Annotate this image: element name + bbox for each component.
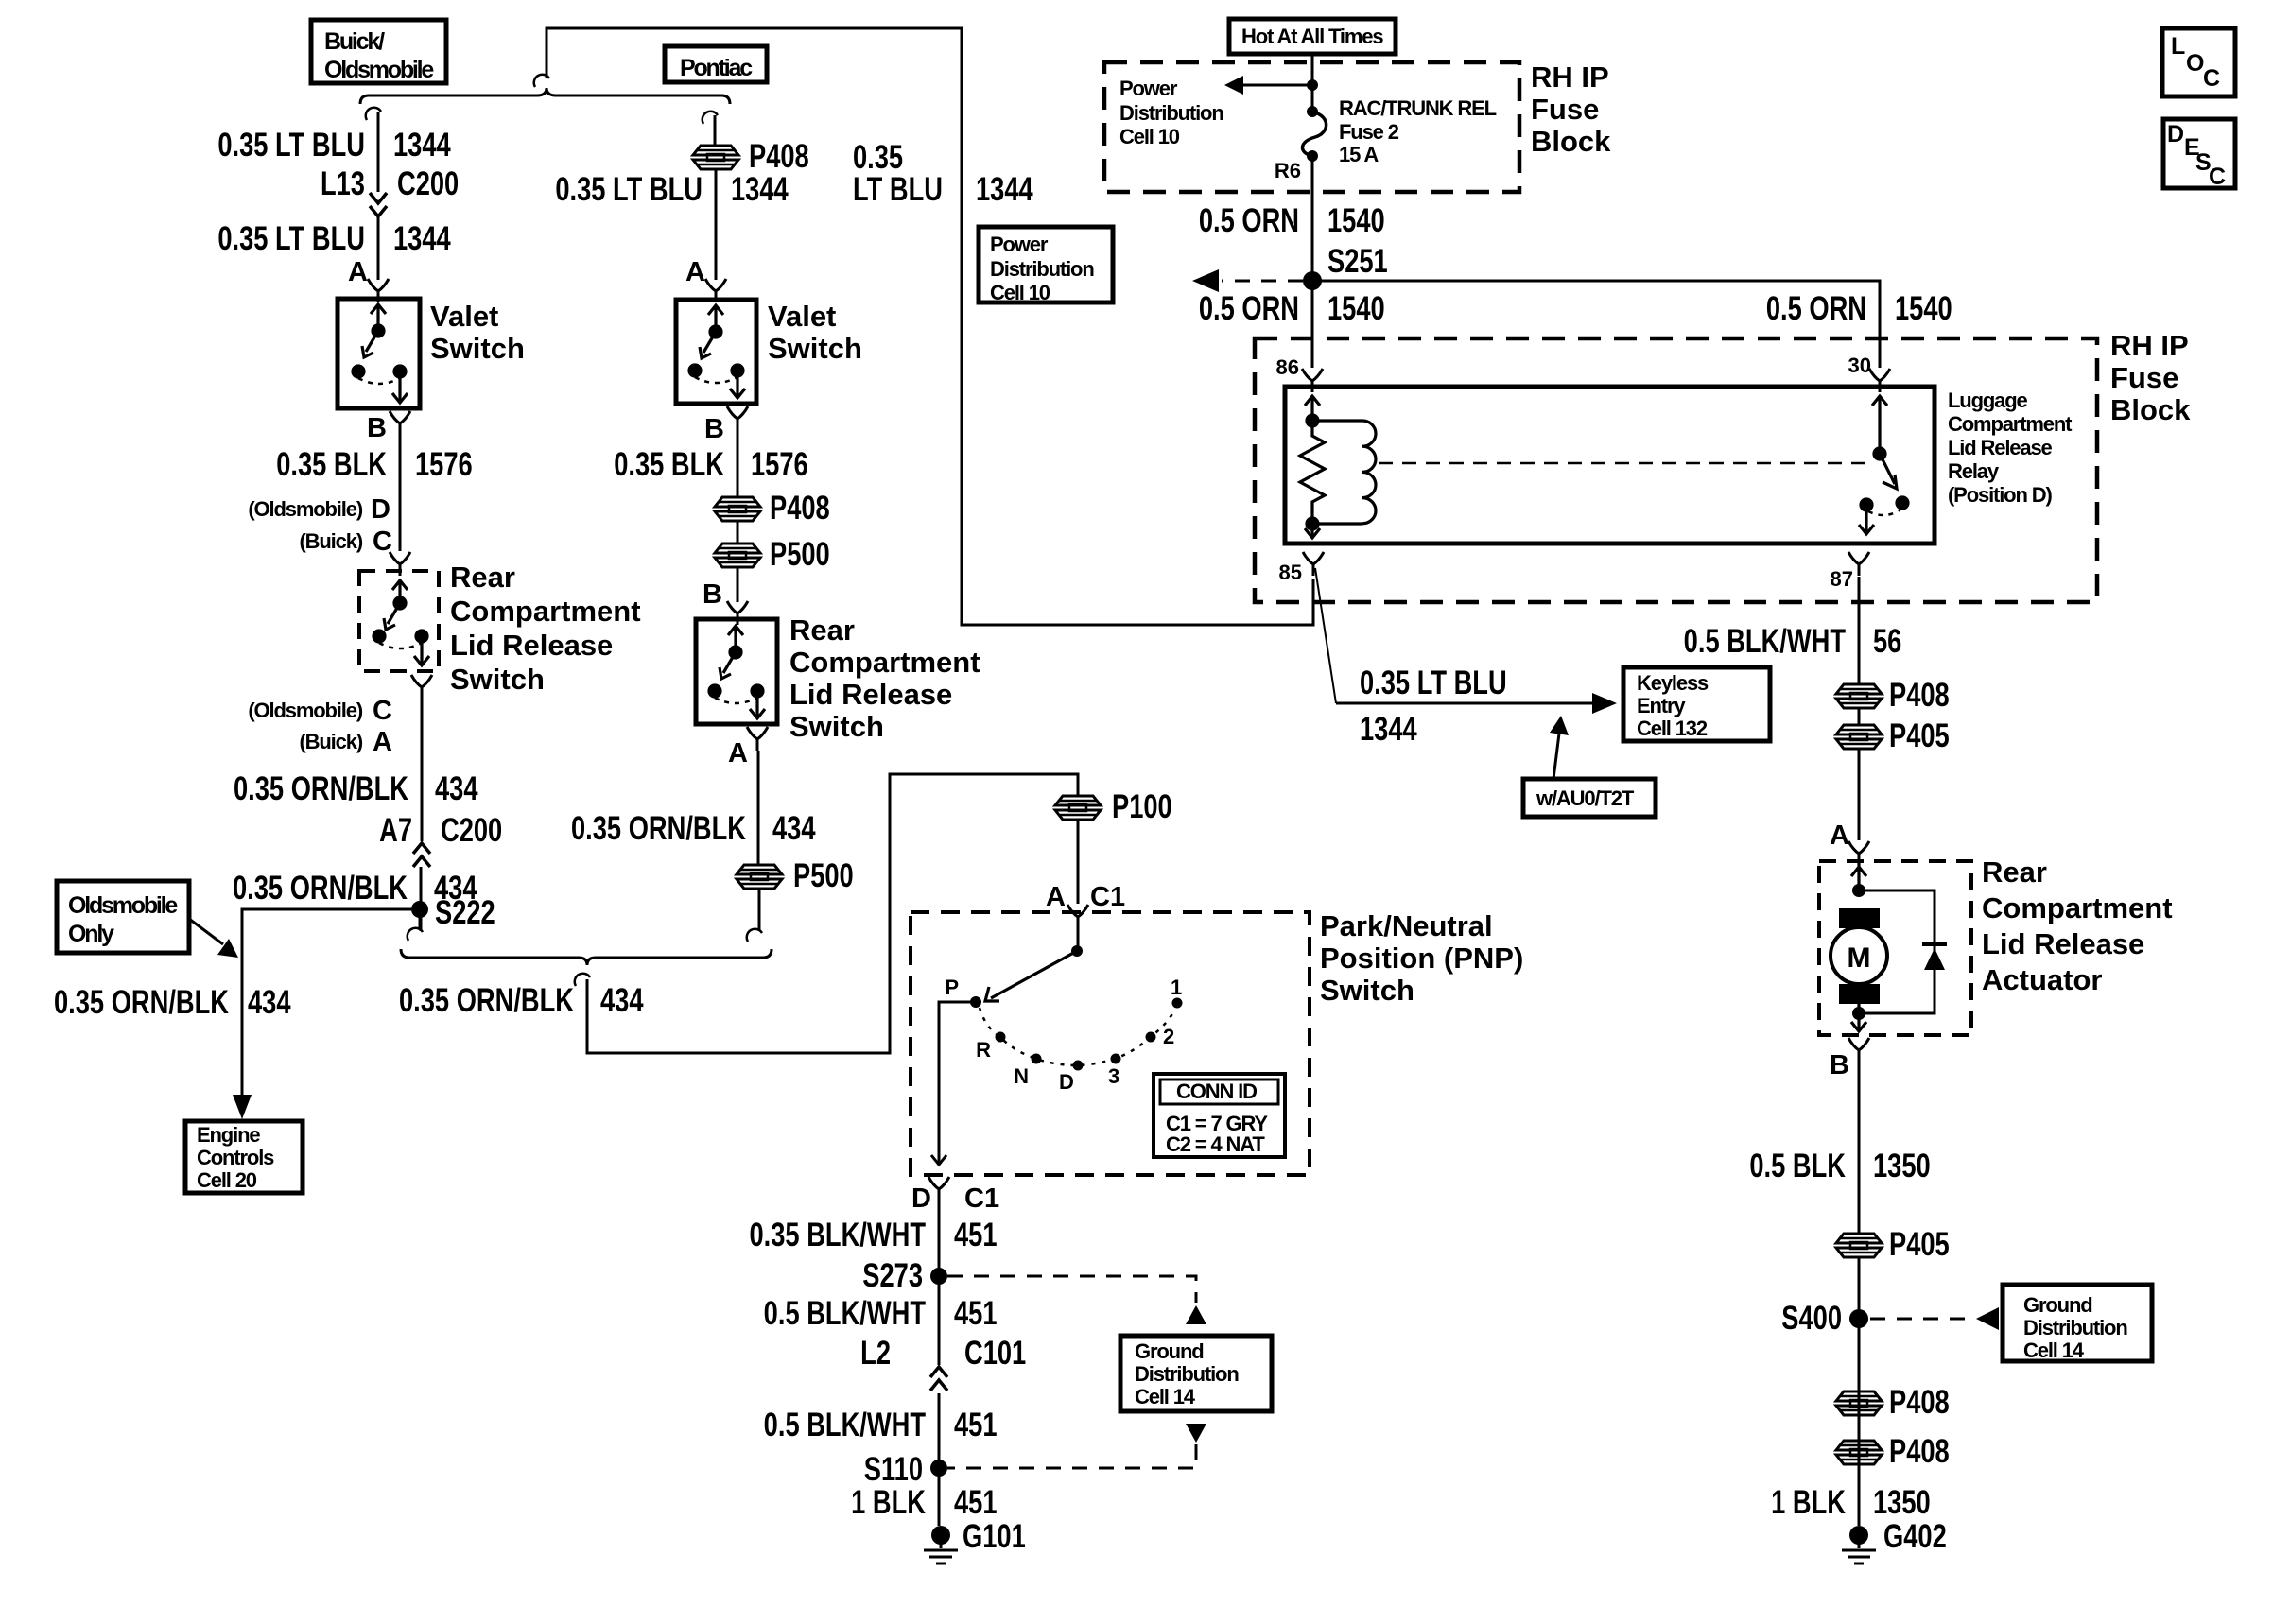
connector P408 (Pontiac top) <box>693 146 738 169</box>
svg-text:(Buick): (Buick) <box>299 529 362 553</box>
svg-text:Cell 20: Cell 20 <box>197 1168 257 1192</box>
svg-text:Compartment: Compartment <box>1948 412 2073 436</box>
svg-text:434: 434 <box>248 984 291 1021</box>
svg-text:RH IP: RH IP <box>1531 60 1609 94</box>
dashed arrow S251 to Power Distribution Cell 10 <box>1222 280 1303 283</box>
wire LT BLU top bus from keyless leg to relay pin 85 <box>547 28 1313 625</box>
svg-text:B: B <box>1830 1050 1849 1080</box>
svg-text:Block: Block <box>1531 125 1611 158</box>
svg-text:(Position D): (Position D) <box>1948 483 2052 507</box>
valet switch Pontiac box <box>676 300 756 404</box>
connector C200 inline chevrons <box>370 193 387 203</box>
connector P408 (right lower 2) <box>1836 1441 1882 1464</box>
svg-text:A: A <box>685 257 705 287</box>
svg-text:Distribution: Distribution <box>2023 1316 2127 1339</box>
svg-text:Switch: Switch <box>789 710 884 743</box>
wire valet B to P408 <box>737 430 739 496</box>
svg-text:P500: P500 <box>770 536 830 573</box>
svg-text:S400: S400 <box>1781 1300 1842 1337</box>
svg-text:0.35 LT BLU: 0.35 LT BLU <box>1360 665 1507 701</box>
motor M <box>1839 908 1880 928</box>
svg-text:1344: 1344 <box>731 171 789 208</box>
CONN ID table <box>1154 1074 1285 1157</box>
svg-text:L: L <box>2171 33 2185 60</box>
wire pin D to G101 <box>938 1199 941 1526</box>
actuator internal wire top <box>1851 861 1866 890</box>
connector P408 (right lower 1) <box>1836 1391 1882 1415</box>
wire S222 to Engine Controls <box>242 909 411 1097</box>
svg-text:Only: Only <box>68 921 114 947</box>
svg-text:(Oldsmobile): (Oldsmobile) <box>248 497 362 521</box>
svg-text:Oldsmobile: Oldsmobile <box>324 57 434 83</box>
connector P405 (right lower) <box>1836 1234 1882 1257</box>
svg-text:S273: S273 <box>862 1257 923 1294</box>
svg-text:1: 1 <box>1171 976 1182 999</box>
svg-text:0.35 BLK/WHT: 0.35 BLK/WHT <box>749 1217 926 1253</box>
svg-text:30: 30 <box>1848 354 1871 377</box>
pin (Oldsmobile) C below switch <box>411 675 432 699</box>
svg-text:1350: 1350 <box>1873 1484 1931 1521</box>
connector P500 (Pontiac middle) <box>715 544 760 567</box>
wire Buick branch upper <box>377 112 380 192</box>
svg-text:C101: C101 <box>964 1335 1026 1372</box>
svg-text:P408: P408 <box>1889 677 1950 714</box>
suppression diode <box>1859 890 1935 1013</box>
svg-text:P408: P408 <box>1889 1433 1950 1470</box>
svg-text:0.35 ORN/BLK: 0.35 ORN/BLK <box>233 870 408 907</box>
svg-text:1 BLK: 1 BLK <box>1771 1484 1846 1521</box>
svg-text:G101: G101 <box>963 1518 1026 1555</box>
svg-text:0.35 LT BLU: 0.35 LT BLU <box>217 220 365 257</box>
svg-text:C200: C200 <box>441 812 502 849</box>
wire P408 to valet switch Pontiac <box>715 170 718 280</box>
svg-text:0.5 BLK: 0.5 BLK <box>1749 1148 1846 1184</box>
pin A rear switch Pontiac <box>747 727 768 751</box>
wire S251 to relay pin 30 <box>1312 281 1880 368</box>
svg-text:Switch: Switch <box>430 332 525 365</box>
svg-text:85: 85 <box>1279 561 1302 584</box>
connector P408 (right upper) <box>1836 684 1882 708</box>
svg-text:451: 451 <box>954 1295 998 1332</box>
svg-text:Fuse: Fuse <box>1531 93 1599 126</box>
svg-text:Cell 10: Cell 10 <box>1119 125 1180 148</box>
svg-text:B: B <box>704 414 724 444</box>
svg-text:0.5 ORN: 0.5 ORN <box>1199 202 1299 239</box>
svg-text:451: 451 <box>954 1217 998 1253</box>
dashed link S273 to Ground Distribution <box>947 1276 1196 1303</box>
splice S222 <box>411 901 428 918</box>
wire pigtail Buick branch top <box>366 108 381 120</box>
svg-text:Ground: Ground <box>2023 1293 2092 1317</box>
wire P500 to brace <box>758 890 761 931</box>
svg-text:434: 434 <box>600 982 644 1019</box>
svg-text:P405: P405 <box>1889 1226 1950 1263</box>
valet switch Pontiac contacts and arm <box>689 305 745 398</box>
wire Buick branch to valet switch <box>377 216 380 280</box>
svg-text:Oldsmobile: Oldsmobile <box>68 892 178 919</box>
dashed link Ground Distribution to S110 <box>1186 1424 1206 1443</box>
svg-text:Controls: Controls <box>197 1146 274 1169</box>
relay coil branch pin 86 <box>1300 396 1376 538</box>
connector P500 (Pontiac lower) <box>737 865 782 889</box>
wire Hot At All Times into fuse block <box>1311 54 1314 112</box>
svg-text:Switch: Switch <box>768 332 862 365</box>
svg-text:L2: L2 <box>860 1335 891 1372</box>
w/AU0/T2T tag box <box>1523 779 1656 817</box>
svg-text:Distribution: Distribution <box>1135 1362 1239 1386</box>
svg-text:A: A <box>1830 821 1849 851</box>
svg-text:Pontiac: Pontiac <box>680 55 753 81</box>
fuse RAC/TRUNK REL Fuse 2 15A <box>1307 106 1318 117</box>
Power Distribution Cell 10 box (left of S251) <box>979 227 1113 304</box>
svg-text:0.35 BLK: 0.35 BLK <box>276 446 387 483</box>
svg-text:P408: P408 <box>1889 1384 1950 1421</box>
svg-text:D: D <box>371 494 390 525</box>
wire valet B to rear compartment lid release switch <box>399 435 402 551</box>
svg-text:D: D <box>2167 121 2184 147</box>
svg-text:P405: P405 <box>1889 717 1950 754</box>
svg-text:C200: C200 <box>397 165 459 202</box>
svg-text:3: 3 <box>1108 1064 1119 1088</box>
pin D C1 below PNP <box>928 1177 949 1201</box>
svg-text:56: 56 <box>1873 623 1901 660</box>
svg-text:2: 2 <box>1163 1025 1174 1048</box>
connector P100 <box>1055 796 1101 820</box>
svg-text:0.35 LT BLU: 0.35 LT BLU <box>217 127 365 164</box>
Park/Neutral Position switch dashed box <box>911 912 1310 1175</box>
box Pontiac <box>665 46 767 82</box>
wire pigtail below S222 <box>408 928 423 941</box>
svg-text:C1: C1 <box>964 1183 999 1214</box>
arrowhead into Engine Controls <box>233 1095 252 1119</box>
svg-text:Rear: Rear <box>1982 855 2047 889</box>
LOC legend box <box>2162 28 2235 96</box>
pin B valet switch Buick <box>390 411 410 435</box>
svg-text:Rear: Rear <box>789 613 855 647</box>
PNP terminal 1 <box>1172 998 1183 1009</box>
svg-text:M: M <box>1848 942 1871 974</box>
Hot At All Times box <box>1229 19 1396 54</box>
rear compartment lid release switch Buick dashed box <box>359 571 439 671</box>
svg-text:434: 434 <box>435 770 478 807</box>
svg-text:C: C <box>2209 164 2226 190</box>
svg-text:1576: 1576 <box>751 446 808 483</box>
svg-text:451: 451 <box>954 1484 998 1521</box>
svg-text:R6: R6 <box>1275 159 1301 182</box>
svg-text:Power: Power <box>990 233 1049 256</box>
svg-text:Cell 10: Cell 10 <box>990 281 1050 304</box>
svg-text:A: A <box>348 257 368 287</box>
svg-text:Entry: Entry <box>1637 694 1686 717</box>
wire below S222 to brace <box>419 916 422 930</box>
wire relay pin 87 to actuator <box>1858 577 1861 840</box>
svg-text:Hot At All Times: Hot At All Times <box>1241 25 1383 48</box>
svg-text:Distribution: Distribution <box>990 257 1094 281</box>
ground G101 <box>924 1526 958 1564</box>
connector C101 inline chevrons <box>930 1367 947 1377</box>
svg-text:Actuator: Actuator <box>1982 963 2102 996</box>
PNP terminal R <box>996 1032 1006 1043</box>
svg-text:0.5 ORN: 0.5 ORN <box>1766 290 1866 327</box>
svg-text:0.35 ORN/BLK: 0.35 ORN/BLK <box>54 984 229 1021</box>
svg-text:Lid Release: Lid Release <box>450 629 613 662</box>
leader line from pin 85 to wire label <box>1315 568 1336 703</box>
wire pigtail above brace right <box>747 929 762 942</box>
svg-text:0.5 BLK/WHT: 0.5 BLK/WHT <box>764 1295 926 1332</box>
svg-text:S110: S110 <box>864 1451 923 1488</box>
arrow to Power Distribution Cell 10 (top) <box>1241 84 1312 87</box>
svg-text:P100: P100 <box>1112 788 1172 825</box>
svg-text:RH IP: RH IP <box>2110 329 2189 362</box>
svg-text:C: C <box>2203 65 2220 92</box>
svg-text:L13: L13 <box>321 165 365 202</box>
svg-text:Position (PNP): Position (PNP) <box>1320 942 1523 975</box>
wire P500 to rear switch Pontiac <box>737 568 739 602</box>
svg-text:LT BLU: LT BLU <box>853 171 943 208</box>
svg-text:1540: 1540 <box>1327 202 1385 239</box>
splice S110 <box>930 1460 947 1477</box>
wire rear switch A to P500 <box>757 751 760 864</box>
svg-text:Compartment: Compartment <box>789 646 980 679</box>
RH IP Fuse Block dashed box (relay) <box>1255 338 2097 602</box>
svg-text:0.35 BLK: 0.35 BLK <box>614 446 724 483</box>
svg-text:S251: S251 <box>1327 243 1388 280</box>
svg-text:O: O <box>2186 50 2204 77</box>
svg-text:Fuse: Fuse <box>2110 361 2178 394</box>
node battery feed <box>1307 79 1318 91</box>
svg-text:B: B <box>367 413 387 443</box>
svg-text:D: D <box>1059 1070 1074 1094</box>
svg-text:Relay: Relay <box>1948 459 2000 483</box>
wire 434 from brace to PNP switch via P100 <box>587 774 1078 1053</box>
svg-text:Engine: Engine <box>197 1123 260 1147</box>
svg-text:0.5 ORN: 0.5 ORN <box>1199 290 1299 327</box>
svg-text:A7: A7 <box>379 812 412 849</box>
svg-text:RAC/TRUNK REL: RAC/TRUNK REL <box>1339 96 1497 120</box>
svg-text:434: 434 <box>772 810 816 847</box>
svg-text:1350: 1350 <box>1873 1148 1931 1184</box>
svg-text:Park/Neutral: Park/Neutral <box>1320 909 1493 942</box>
svg-text:1344: 1344 <box>393 220 451 257</box>
valet switch Buick contacts and arm <box>353 304 408 403</box>
dashed link S400 to Ground Distribution <box>1870 1318 1974 1321</box>
relay actuation dashed link <box>1379 462 1866 465</box>
svg-text:Cell 132: Cell 132 <box>1637 717 1708 740</box>
svg-text:Lid Release: Lid Release <box>1948 436 2053 459</box>
svg-text:Switch: Switch <box>450 663 545 696</box>
PNP switch arm from pin A <box>1077 928 1080 951</box>
svg-text:B: B <box>703 579 722 610</box>
svg-text:P408: P408 <box>770 490 830 527</box>
svg-text:P408: P408 <box>749 138 809 175</box>
svg-text:C: C <box>373 696 392 726</box>
svg-text:0.5 BLK/WHT: 0.5 BLK/WHT <box>764 1407 926 1443</box>
wire P408 to P500 <box>737 522 739 543</box>
wire P terminal to pin D exit <box>931 1002 976 1165</box>
relay switch branch pin 30 <box>1859 396 1908 534</box>
svg-text:0.35 ORN/BLK: 0.35 ORN/BLK <box>571 810 746 847</box>
svg-text:Rear: Rear <box>450 561 515 594</box>
svg-text:C2 = 4 NAT: C2 = 4 NAT <box>1166 1132 1265 1156</box>
svg-text:(Buick): (Buick) <box>299 730 362 753</box>
svg-text:Cell 14: Cell 14 <box>1135 1385 1196 1408</box>
connector P405 (right upper) <box>1836 725 1882 749</box>
leader wire 0.35 LT BLU 1344 to Keyless Entry <box>1336 702 1592 705</box>
wire Pontiac branch to P408 <box>714 115 717 145</box>
rear compartment lid release switch Buick contacts <box>373 580 429 665</box>
svg-text:CONN ID: CONN ID <box>1176 1080 1257 1103</box>
svg-text:Valet: Valet <box>430 300 498 333</box>
svg-text:1540: 1540 <box>1895 290 1952 327</box>
svg-text:1344: 1344 <box>393 127 451 164</box>
svg-text:Block: Block <box>2110 393 2191 426</box>
PNP terminal 2 <box>1146 1032 1156 1043</box>
wire pigtail at top split <box>534 75 549 87</box>
svg-text:Lid Release: Lid Release <box>1982 927 2144 960</box>
svg-text:Compartment: Compartment <box>1982 891 2173 924</box>
svg-text:1344: 1344 <box>976 171 1033 208</box>
svg-text:Ground: Ground <box>1135 1339 1204 1363</box>
wire C200 to splice S222 <box>420 867 423 931</box>
rear compartment lid release switch Pontiac box <box>696 619 777 724</box>
svg-text:Compartment: Compartment <box>450 595 641 628</box>
svg-text:A: A <box>373 727 392 757</box>
valet switch Buick box <box>338 299 420 408</box>
svg-text:w/AU0/T2T: w/AU0/T2T <box>1536 786 1635 810</box>
svg-text:G402: G402 <box>1883 1518 1947 1555</box>
rear compartment lid release actuator dashed box <box>1819 861 1971 1035</box>
svg-text:Lid Release: Lid Release <box>789 678 952 711</box>
svg-text:86: 86 <box>1276 355 1299 379</box>
svg-text:A: A <box>1046 882 1066 912</box>
wire pigtail Pontiac branch top <box>703 112 718 124</box>
svg-text:C1: C1 <box>1090 882 1125 912</box>
svg-text:N: N <box>1014 1064 1029 1088</box>
box Buick/Oldsmobile <box>311 20 446 83</box>
Engine Controls Cell 20 box <box>185 1121 303 1193</box>
PNP terminal arc dashed <box>980 1008 1175 1065</box>
arrow Oldsmobile Only to wire <box>189 919 223 944</box>
svg-text:1344: 1344 <box>1360 711 1417 748</box>
wire fuse to relay pin 86 <box>1311 156 1314 368</box>
svg-text:451: 451 <box>954 1407 998 1443</box>
wire actuator B to P405 <box>1858 1062 1861 1526</box>
wire pigtail below brace peak <box>575 974 590 986</box>
pin B actuator <box>1848 1038 1869 1062</box>
svg-text:S222: S222 <box>435 894 495 931</box>
PNP terminal D <box>1073 1061 1084 1071</box>
svg-text:0.35 LT BLU: 0.35 LT BLU <box>555 171 703 208</box>
brace joining Buick and Pontiac legs into wire 434 <box>401 949 772 965</box>
svg-text:1576: 1576 <box>415 446 473 483</box>
actuator internal wire bottom <box>1851 984 1866 1031</box>
wire switch to C200 connector <box>421 699 424 841</box>
svg-text:D: D <box>911 1183 931 1214</box>
PNP terminal N <box>1032 1054 1042 1064</box>
luggage compartment lid release relay box <box>1285 387 1935 544</box>
svg-text:0.35 ORN/BLK: 0.35 ORN/BLK <box>399 982 574 1019</box>
Oldsmobile Only box <box>57 881 189 953</box>
Ground Distribution Cell 14 box (right) <box>2003 1285 2152 1362</box>
svg-text:R: R <box>976 1038 991 1062</box>
svg-text:0.35 ORN/BLK: 0.35 ORN/BLK <box>234 770 408 807</box>
PNP terminal P <box>970 996 981 1008</box>
svg-text:Valet: Valet <box>768 300 836 333</box>
svg-text:0.5 BLK/WHT: 0.5 BLK/WHT <box>1684 623 1846 660</box>
ground G402 <box>1842 1526 1876 1564</box>
DESC legend box <box>2163 119 2235 190</box>
svg-text:87: 87 <box>1831 567 1853 591</box>
svg-text:Buick/: Buick/ <box>324 28 385 55</box>
svg-text:Power: Power <box>1119 77 1178 100</box>
wire P100 to PNP pin A <box>1077 821 1080 904</box>
svg-text:Luggage: Luggage <box>1948 389 2028 412</box>
svg-text:1 BLK: 1 BLK <box>851 1484 926 1521</box>
connector C200 inline chevrons (upward) <box>413 843 430 854</box>
svg-text:(Oldsmobile): (Oldsmobile) <box>248 699 362 722</box>
svg-text:Cell 14: Cell 14 <box>2023 1339 2085 1362</box>
PNP terminal 3 <box>1111 1054 1121 1064</box>
Ground Distribution Cell 14 box (middle) <box>1120 1336 1272 1411</box>
rear compartment lid release switch Pontiac contacts <box>709 626 765 718</box>
connector P408 (Pontiac middle) <box>715 497 760 521</box>
top brace splitting LT BLU to Buick and Pontiac <box>360 88 730 104</box>
svg-text:Keyless: Keyless <box>1637 671 1709 695</box>
svg-text:1540: 1540 <box>1327 290 1385 327</box>
Keyless Entry Cell 132 box <box>1623 667 1770 741</box>
svg-text:Distribution: Distribution <box>1119 101 1223 125</box>
arrow w/AU0/T2T to leader wire <box>1553 734 1559 779</box>
pin B valet switch Pontiac <box>727 406 748 430</box>
svg-text:15 A: 15 A <box>1339 143 1379 166</box>
RH IP Fuse Block dashed box (top) <box>1104 62 1519 192</box>
svg-text:Fuse 2: Fuse 2 <box>1339 120 1399 144</box>
splice S273 <box>930 1268 947 1285</box>
svg-text:A: A <box>728 738 748 769</box>
svg-text:Switch: Switch <box>1320 974 1414 1007</box>
svg-text:P: P <box>945 976 959 999</box>
svg-text:P500: P500 <box>793 857 854 894</box>
